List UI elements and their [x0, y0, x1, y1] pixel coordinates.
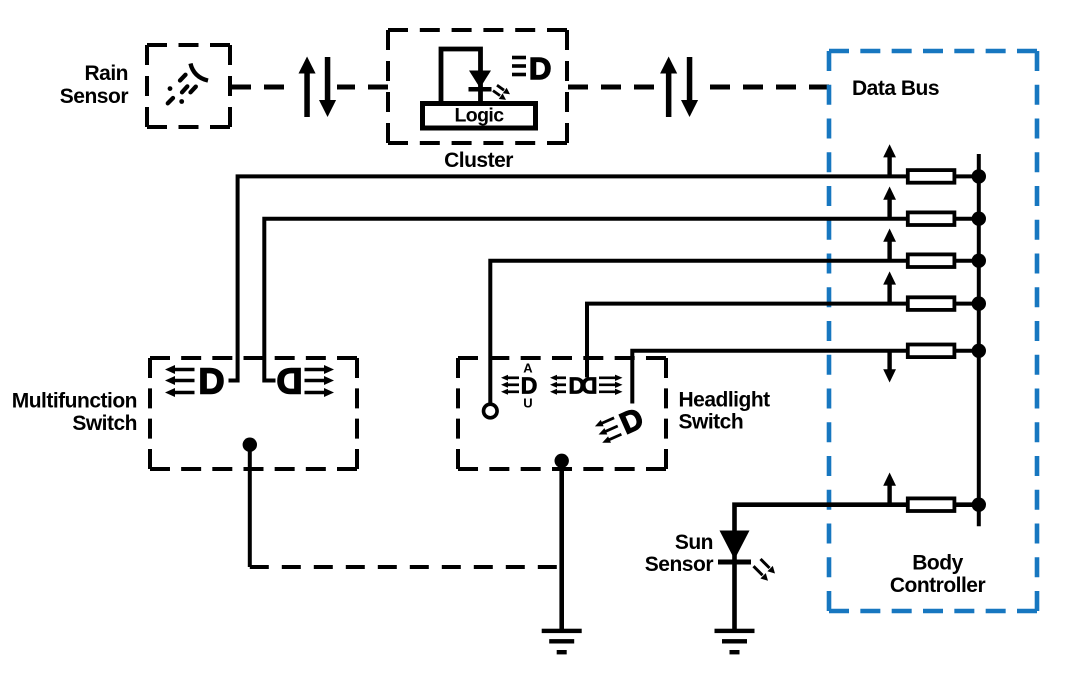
svg-text:Switch: Switch: [679, 411, 744, 434]
svg-text:Cluster: Cluster: [444, 149, 513, 172]
data bus label: [852, 77, 939, 100]
svg-text:Controller: Controller: [890, 574, 986, 597]
headlight auto icon: [501, 361, 537, 411]
bus arrow row 4: [883, 271, 896, 303]
bus arrow row 5 (down): [883, 351, 896, 383]
svg-text:D: D: [199, 361, 225, 402]
rain sensor box: [147, 45, 230, 127]
svg-text:D: D: [529, 51, 551, 86]
svg-text:U: U: [523, 396, 532, 411]
multifunction switch label: [12, 390, 137, 436]
svg-text:Body: Body: [912, 552, 963, 575]
bus junction dot row 2: [972, 212, 986, 226]
sun emission arrows: [754, 559, 776, 581]
bus arrow row 3: [883, 229, 896, 261]
bus arrow row 2: [883, 187, 896, 219]
resistor R2: [908, 212, 955, 225]
dashed signal wire rain to cluster: [231, 85, 388, 90]
bus arrow row 6: [883, 473, 896, 505]
resistor R3: [908, 254, 955, 267]
svg-text:Sensor: Sensor: [60, 85, 129, 108]
sun sensor photodiode: [718, 531, 751, 565]
multifunction junction dot: [243, 438, 257, 452]
multifunction switch box: [150, 358, 357, 469]
svg-text:Sensor: Sensor: [645, 553, 714, 576]
headlight parking light icon: [550, 373, 623, 399]
bus junction dot row 4: [972, 296, 986, 310]
wire W1 multifunction high beam to bus: [229, 176, 979, 380]
wire W5 low beam to bus: [632, 351, 979, 404]
data arrows pair 2: [660, 57, 698, 118]
headlight ground symbol: [542, 629, 582, 655]
wire W4 parking light to bus: [587, 304, 979, 378]
sun sensor label: [645, 531, 714, 576]
cluster box: [388, 30, 567, 143]
svg-text:Rain: Rain: [84, 62, 128, 85]
headlight junction dot: [555, 454, 569, 468]
bus arrow row 1: [883, 144, 896, 176]
bus junction dot row 6: [972, 498, 986, 512]
bus junction dot row 5: [972, 344, 986, 358]
resistor R1: [908, 170, 955, 183]
svg-text:D: D: [277, 361, 303, 402]
svg-text:D: D: [581, 373, 598, 399]
wire W6 sun sensor to bus: [735, 505, 979, 630]
resistor R6: [908, 498, 955, 511]
headlight switch label: [679, 389, 771, 434]
wire W2 multifunction flash to bus: [264, 219, 979, 381]
data bus box: [829, 51, 1037, 611]
rain sensor icon: [168, 64, 208, 104]
rain sensor label: [60, 62, 129, 108]
headlight open terminal: [484, 404, 498, 418]
bus junction dot row 1: [972, 169, 986, 183]
resistor R5: [908, 345, 955, 358]
svg-text:Data Bus: Data Bus: [852, 77, 939, 100]
cluster indicator tube: [441, 49, 481, 104]
multifunction ground wire: [248, 445, 252, 567]
svg-text:Switch: Switch: [72, 412, 137, 435]
cluster high beam telltale: [512, 51, 551, 86]
multifunction flash icon: [277, 361, 335, 402]
dashed signal wire cluster to data bus: [568, 85, 829, 90]
svg-text:Logic: Logic: [455, 105, 505, 127]
svg-text:Multifunction: Multifunction: [12, 390, 137, 413]
body controller label: [890, 552, 986, 598]
logic label: [455, 105, 505, 127]
cluster LED diode: [469, 71, 492, 92]
sun sensor ground symbol: [715, 629, 755, 655]
cluster LED emission arrows: [493, 85, 510, 100]
bus vertical line: [977, 154, 981, 526]
headlight switch box: [458, 358, 666, 469]
cluster label: [444, 149, 513, 172]
headlight low beam icon: [592, 402, 648, 451]
svg-text:Sun: Sun: [675, 531, 713, 554]
headlight ground wire: [559, 461, 564, 631]
bus junction dot row 3: [972, 254, 986, 268]
shared ground dashed wire: [250, 565, 562, 569]
cluster logic box: [423, 104, 536, 129]
wire W3 headlight terminal to bus: [490, 261, 979, 404]
multifunction high beam icon: [165, 361, 225, 402]
data arrows pair 1: [299, 57, 337, 118]
resistor R4: [908, 297, 955, 310]
svg-text:Headlight: Headlight: [679, 389, 771, 412]
